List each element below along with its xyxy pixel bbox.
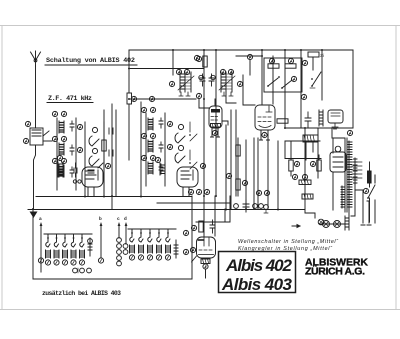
- junction circle mid: [199, 75, 215, 79]
- wire L3 to V4: [226, 92, 236, 103]
- sub-circuit bottom rail: [33, 278, 192, 280]
- bank B element 5: [165, 229, 170, 260]
- V4 pins: [260, 130, 270, 140]
- resistor R9: [236, 179, 240, 190]
- wire: main vertical x204: [203, 50, 205, 196]
- resistor R5 in S1: [285, 64, 296, 68]
- power transformer Tr4 core: [345, 138, 347, 212]
- terminal 26: [220, 69, 225, 74]
- wire grid line V3: [129, 98, 196, 100]
- coil ground feet: [179, 92, 233, 96]
- wire audio vertical x238: [237, 138, 239, 196]
- Tr4 heater winding: [341, 186, 345, 208]
- terminal 41: [149, 96, 154, 101]
- ground bus upper: [36, 196, 192, 198]
- terminal 44: [294, 161, 299, 166]
- IF transformer Tr2 frame: [146, 113, 165, 186]
- tuning gang C1 curves: [88, 127, 103, 173]
- wire sub rail y203: [157, 202, 230, 204]
- svg-text:Albis 402: Albis 402: [225, 256, 293, 275]
- wire: main vertical x254: [253, 138, 255, 209]
- Tr1 winding b: [59, 143, 64, 155]
- svg-text:Albis 403: Albis 403: [221, 275, 293, 294]
- IF transformer Tr1 frame: [57, 118, 76, 190]
- terminal 48: [194, 55, 199, 60]
- grid resistor R6 above V6: [199, 221, 203, 232]
- svg-text:a: a: [39, 217, 42, 222]
- bank A element 3: [62, 234, 67, 265]
- wire: main vertical x262: [261, 50, 263, 104]
- underline of Z.F. label: [47, 102, 93, 104]
- terminal 18: [167, 144, 172, 149]
- triode V1 (bottom row left): [82, 167, 103, 187]
- wire x278 drop: [277, 141, 279, 210]
- resistor R7 on bus1: [102, 140, 106, 151]
- terminal 24b: [184, 69, 189, 74]
- wire x231 drop: [230, 110, 232, 210]
- terminal 10: [77, 147, 82, 152]
- logo ALBISWERK ZUERICH A.G.: [305, 257, 368, 278]
- Tr4 primary taps: [352, 162, 362, 178]
- terminal 40: [131, 96, 136, 101]
- switch wing contacts right of gang2: [189, 122, 197, 169]
- oscillator coil pair L2: [178, 72, 194, 92]
- dial lamps La1 La2: [320, 221, 345, 228]
- wire x375 drop: [374, 175, 376, 223]
- Tr2 trimmers: [159, 118, 163, 174]
- wire: main vertical x236: [235, 110, 237, 196]
- terminal 42: [226, 173, 231, 178]
- terminal row above rail: [188, 189, 269, 195]
- mid-bottom cluster caps: [234, 200, 264, 212]
- wire below R1: [128, 104, 130, 160]
- terminal 7: [52, 158, 57, 163]
- terminal 6: [61, 136, 66, 141]
- phono terminal circle: [264, 205, 269, 213]
- padder trimmer caps between coils: [200, 74, 214, 86]
- mains switch K3: [310, 72, 321, 88]
- terminal 35: [347, 130, 352, 135]
- wire: main vertical x216: [215, 50, 217, 196]
- wire: x305 drop: [304, 128, 306, 209]
- resistor R10: [289, 160, 293, 171]
- terminal 46: [292, 174, 297, 179]
- antenna coupling coil L1: [30, 128, 49, 145]
- wire selector to switch: [369, 162, 371, 187]
- terminal 12: [150, 107, 155, 112]
- wire to voltage switch: [355, 190, 369, 223]
- bank A end element: [88, 238, 93, 256]
- wire AVC rail: [129, 68, 204, 70]
- connection arrow a: [39, 217, 42, 272]
- switch contact K2: [281, 80, 292, 89]
- speaker field coil: [319, 110, 323, 126]
- wire y158 audio link: [285, 158, 321, 160]
- wire switch down: [369, 198, 371, 222]
- switch bank B top rail: [128, 228, 176, 230]
- resistor R3: [277, 119, 288, 123]
- pilot lamp symbol right: [318, 219, 324, 225]
- terminal 47: [302, 174, 307, 179]
- label: Z.F. 471 kHz: [48, 95, 92, 103]
- resistor R2 top left of V4: [203, 56, 207, 67]
- wire bus no.2: [111, 104, 113, 209]
- underline of title: [45, 64, 137, 66]
- tube V1 pins: [88, 187, 94, 196]
- terminal 15: [141, 155, 146, 160]
- wire: x318 drop: [317, 128, 319, 178]
- label: Schaltung von ALBIS 402: [46, 57, 135, 65]
- terminal 43: [242, 180, 247, 185]
- terminal 20: [105, 163, 110, 168]
- wire bus between gang and Tr2 no.1: [103, 110, 105, 196]
- svg-text:Wellenschalter in Stellung: Wellenschalter in Stellung „Mittel“: [238, 239, 339, 245]
- output tube V6: [192, 237, 216, 264]
- triode V2 (bottom row right): [177, 167, 198, 187]
- fuse Si: [308, 52, 325, 58]
- speaker LS: [328, 110, 343, 129]
- terminal 24: [176, 69, 181, 74]
- Tr2 winding c: [148, 162, 153, 174]
- V3 pins: [211, 128, 220, 137]
- terminal 9: [77, 124, 82, 129]
- ground bus main: [28, 209, 305, 211]
- svg-text:ZÜRICH A.G.: ZÜRICH A.G.: [305, 265, 365, 278]
- svg-text:Z.F. 471 kHz: Z.F. 471 kHz: [48, 95, 92, 103]
- wire feet: [361, 224, 371, 226]
- terminal 45: [310, 161, 315, 166]
- terminal 11: [141, 107, 146, 112]
- wire: sub-circuit right drop: [191, 196, 193, 279]
- pickup jack rect: [302, 194, 313, 199]
- bank A element 5: [79, 234, 84, 265]
- wire transformer drops: [306, 142, 313, 160]
- wire x204 lower: [203, 196, 205, 236]
- wire from L1 to gang: [43, 140, 52, 142]
- rectifier tube V5: [330, 146, 346, 172]
- wire: main vertical b1: [128, 50, 130, 93]
- terminal 2: [23, 138, 28, 143]
- svg-text:b: b: [99, 216, 102, 222]
- bank B element 2: [138, 229, 143, 260]
- wire osc link: [236, 55, 262, 57]
- wire: sub-circuit left drop: [32, 210, 34, 280]
- terminal 13: [141, 133, 146, 138]
- terminal 5: [52, 136, 57, 141]
- lamp dropper coil: [345, 216, 349, 230]
- wire: main vertical x273: [272, 56, 274, 104]
- wire: top supply rail: [129, 49, 353, 51]
- terminal 17: [167, 121, 172, 126]
- wire: main vertical x285: [284, 50, 286, 128]
- capacitor C4: [74, 163, 77, 177]
- terminal 38: [183, 230, 188, 235]
- bank B element 4: [156, 229, 161, 260]
- terminal 23: [196, 93, 201, 98]
- bank B element 1: [129, 229, 134, 260]
- terminal 29: [247, 54, 252, 59]
- V3 pin terminal: [212, 130, 217, 135]
- terminal 32: [291, 76, 296, 81]
- cap C2: [305, 112, 311, 127]
- svg-text:d: d: [124, 216, 127, 222]
- resistor R1: [127, 93, 132, 104]
- terminal 33: [302, 60, 307, 65]
- Tr2 winding b: [148, 140, 153, 152]
- b arrow end circle: [98, 258, 103, 263]
- wire x141 drop: [140, 102, 142, 196]
- bank A bottom circles extra: [73, 268, 92, 273]
- wire x291 drop: [290, 141, 292, 176]
- band switch box S1: [264, 58, 302, 92]
- wire to V6 region: [196, 196, 230, 222]
- terminal 4: [61, 111, 66, 116]
- terminal 16: [150, 155, 155, 160]
- terminal 28: [196, 56, 201, 61]
- bank B element 3: [147, 229, 152, 260]
- resistor R11: [317, 160, 321, 171]
- terminal 21: [155, 157, 160, 162]
- wire bus no.3: [115, 110, 117, 196]
- tube V2 pins: [183, 187, 189, 196]
- terminal 39: [183, 249, 188, 254]
- oscillator coil pair L3: [219, 72, 235, 92]
- terminal 14: [150, 133, 155, 138]
- terminal 37: [190, 247, 195, 252]
- wires transformer secondary down: [349, 184, 355, 216]
- ground symbol arrow: [30, 212, 38, 219]
- terminal 8: [61, 158, 66, 163]
- bank A element 2: [54, 234, 59, 265]
- wire: antenna lead down: [35, 66, 37, 128]
- connection arrows c d: [117, 216, 127, 244]
- switch bank A top rail: [44, 233, 92, 235]
- wire: left vertical to ground bus: [34, 146, 36, 209]
- bank B right resistor: [174, 240, 178, 258]
- handwriting: Wellenschalter in Stellung Mittel: [238, 239, 339, 252]
- svg-text:Si: Si: [320, 53, 325, 58]
- tone control hatch bar: [299, 180, 311, 185]
- wire gang column 2 right: [103, 122, 105, 196]
- Tr1 winding c: [59, 165, 64, 177]
- svg-text:Schaltung von ALBIS 402: Schaltung von ALBIS 402: [46, 57, 135, 65]
- grid cap wire V3: [199, 99, 215, 108]
- terminal 34: [301, 94, 306, 99]
- V2 cathode coil: [160, 163, 165, 175]
- wire x215 lower: [214, 196, 216, 236]
- title box Albis 402 / 403: [219, 252, 296, 293]
- wire: right outline vertical: [352, 50, 354, 128]
- wire speaker box drop: [331, 128, 333, 138]
- wire fuse drop: [312, 57, 314, 70]
- terminal 19: [57, 155, 62, 160]
- resistor R8: [236, 145, 240, 156]
- terminal 22: [200, 163, 205, 168]
- wire rectifier to transformer: [333, 138, 345, 210]
- svg-text:c: c: [117, 217, 120, 222]
- resistor R4 in S1: [268, 64, 279, 68]
- wire: main vertical x173: [172, 50, 174, 75]
- Tr4 hv winding: [354, 158, 358, 184]
- wire x226 drop: [225, 125, 227, 210]
- V6 pin terminal: [203, 264, 208, 269]
- terminal 26b: [228, 69, 233, 74]
- wire: speaker line: [285, 140, 320, 142]
- svg-text:zusätzlich bei ALBIS 403: zusätzlich bei ALBIS 403: [42, 290, 121, 297]
- gang section 2 curves: [175, 124, 185, 163]
- terminal 27: [237, 81, 242, 86]
- terminal 31: [288, 58, 293, 63]
- coupling cap C3 above V6: [210, 220, 215, 233]
- wire: main vertical x246: [245, 140, 247, 209]
- switch contact K1: [267, 76, 280, 87]
- label: zusaetzlich bei ALBIS 403: [42, 290, 121, 297]
- terminal 3: [52, 111, 57, 116]
- terminal 36: [191, 225, 196, 230]
- wire: outline bottom of right box: [285, 127, 353, 129]
- wire x225: [224, 209, 226, 222]
- wire x285 lower: [284, 141, 286, 159]
- V4 pin terminal: [262, 132, 267, 137]
- Tr1 trimmer caps: [70, 121, 74, 177]
- wire: main vertical x322: [321, 50, 323, 100]
- mixer tube V4: [255, 105, 275, 130]
- wire: main vertical x301: [300, 50, 302, 128]
- wire bottom bus right tail: [305, 209, 315, 218]
- dots padding caps column2: [109, 128, 113, 156]
- V1 cathode coil: [58, 162, 63, 177]
- antenna A1: [31, 51, 41, 66]
- mains voltage selector switch K4: [363, 175, 375, 199]
- Tr1 winding a: [59, 121, 64, 133]
- rail junction dots: [84, 49, 323, 211]
- wire x319 drop: [318, 155, 320, 160]
- connection arrow b: [99, 216, 102, 258]
- bank B left contact column: [117, 238, 128, 266]
- terminal 1: [25, 121, 30, 126]
- wire V4 cathode drops: [258, 138, 268, 209]
- terminal 25: [169, 81, 174, 86]
- arrow mid: [292, 225, 300, 228]
- voltage selector body: [368, 171, 372, 183]
- bank A first circle: [38, 258, 43, 263]
- wire V4 grid: [243, 75, 255, 105]
- bank A element 1: [45, 234, 50, 265]
- terminal 30: [269, 58, 274, 63]
- wire osc drop: [249, 60, 251, 75]
- V3 side lead: [222, 121, 228, 125]
- wire gang column 2 left: [84, 122, 86, 196]
- junction pair: [73, 180, 81, 183]
- V6 cathode wire: [205, 269, 207, 278]
- pentode V3 IF amplifier: [209, 106, 222, 128]
- Tr4 primary winding: [348, 141, 352, 210]
- Tr2 winding a: [148, 118, 153, 130]
- bank A element 4: [71, 234, 76, 265]
- output transformer Tr3: [303, 135, 318, 142]
